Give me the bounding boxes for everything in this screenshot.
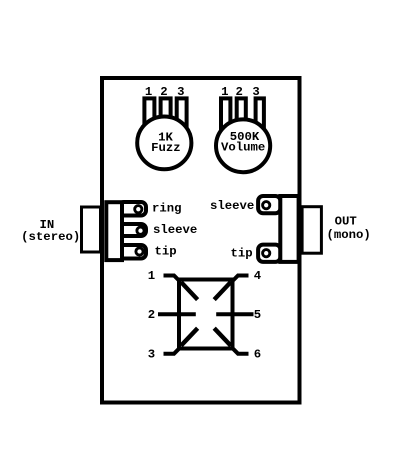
J2 sleeve lug <box>258 196 280 213</box>
SW1 pin number 1 <box>148 269 155 283</box>
svg-text:tip: tip <box>155 245 177 259</box>
input jack J1 barrel <box>82 207 101 252</box>
J1 tip lug hole <box>136 248 143 255</box>
VR2 pin number 2 <box>236 85 243 99</box>
pot VR2 lug 1 <box>221 98 230 133</box>
svg-text:sleeve: sleeve <box>210 199 254 213</box>
J1 ring lug hole <box>135 206 142 213</box>
svg-text:OUT: OUT <box>335 215 358 229</box>
svg-text:Fuzz: Fuzz <box>151 141 181 155</box>
SW1 internal diagonal top-right <box>214 282 231 300</box>
switch SW1 body <box>179 280 233 349</box>
VR1 pin number 3 <box>177 85 184 99</box>
svg-text:Volume: Volume <box>221 140 265 154</box>
SW1 internal diagonal bottom-right <box>214 328 231 346</box>
J1 sleeve lug hole <box>137 227 144 234</box>
pot VR1 lug 2 <box>161 98 171 131</box>
wire lead pin 3 <box>164 348 180 354</box>
J2 tip lug hole <box>263 250 270 257</box>
svg-text:5: 5 <box>254 308 261 322</box>
potentiometer VR1 1K Fuzz body <box>137 116 191 169</box>
pot VR2 lug 3 <box>256 98 264 133</box>
label ring <box>152 202 182 216</box>
svg-text:6: 6 <box>254 347 261 361</box>
svg-text:3: 3 <box>148 347 155 361</box>
pot VR1 lug 1 <box>144 98 154 131</box>
svg-text:(mono): (mono) <box>326 228 370 242</box>
SW1 pin number 4 <box>254 269 262 283</box>
J1 tip lug <box>119 245 146 259</box>
label sleeve (input) <box>153 223 197 237</box>
output jack J2 body <box>280 196 298 262</box>
potentiometer VR2 500K Volume body <box>216 119 270 172</box>
J1 sleeve lug <box>119 224 146 236</box>
svg-text:3: 3 <box>252 85 259 99</box>
wire lead pin 4 <box>233 276 249 282</box>
SW1 pin number 5 <box>254 308 261 322</box>
label tip (input) <box>155 245 177 259</box>
J1 ring lug <box>119 202 146 216</box>
input jack J1 body <box>106 202 122 260</box>
svg-text:1: 1 <box>221 85 228 99</box>
svg-text:2: 2 <box>160 85 167 99</box>
svg-text:1: 1 <box>145 85 152 99</box>
label tip (output) <box>230 247 252 261</box>
SW1 pin number 2 <box>148 308 155 322</box>
SW1 pin number 3 <box>148 347 155 361</box>
svg-text:sleeve: sleeve <box>153 223 197 237</box>
wire lead pin 6 <box>233 348 249 354</box>
svg-text:4: 4 <box>254 269 262 283</box>
SW1 internal diagonal top-left <box>181 282 198 300</box>
svg-text:tip: tip <box>230 247 252 261</box>
label OUT (mono) <box>326 215 370 242</box>
J2 sleeve lug hole <box>263 202 270 209</box>
VR1 pin number 2 <box>160 85 167 99</box>
label IN (stereo) <box>21 218 80 244</box>
svg-text:3: 3 <box>177 85 184 99</box>
SW1 pin number 6 <box>254 347 261 361</box>
svg-text:(stereo): (stereo) <box>21 230 80 244</box>
SW1 internal diagonal bottom-left <box>181 328 198 346</box>
svg-text:2: 2 <box>148 308 155 322</box>
wire lead pin 5 <box>216 312 253 316</box>
wire lead pin 2 <box>158 312 196 316</box>
VR1 pin number 1 <box>145 85 152 99</box>
VR2 pin number 3 <box>252 85 259 99</box>
svg-text:1: 1 <box>148 269 155 283</box>
J2 tip lug <box>258 245 280 262</box>
VR2 value label 500K Volume <box>221 130 265 154</box>
pot VR2 lug 2 <box>237 98 246 133</box>
wire lead pin 1 <box>164 276 180 282</box>
VR1 value label 1K Fuzz <box>151 130 181 155</box>
VR2 pin number 1 <box>221 85 228 99</box>
enclosure box <box>102 78 300 403</box>
svg-text:ring: ring <box>152 202 182 216</box>
svg-text:2: 2 <box>236 85 243 99</box>
pot VR1 lug 3 <box>177 98 187 131</box>
output jack J2 barrel <box>302 207 321 254</box>
label sleeve (output) <box>210 199 254 213</box>
